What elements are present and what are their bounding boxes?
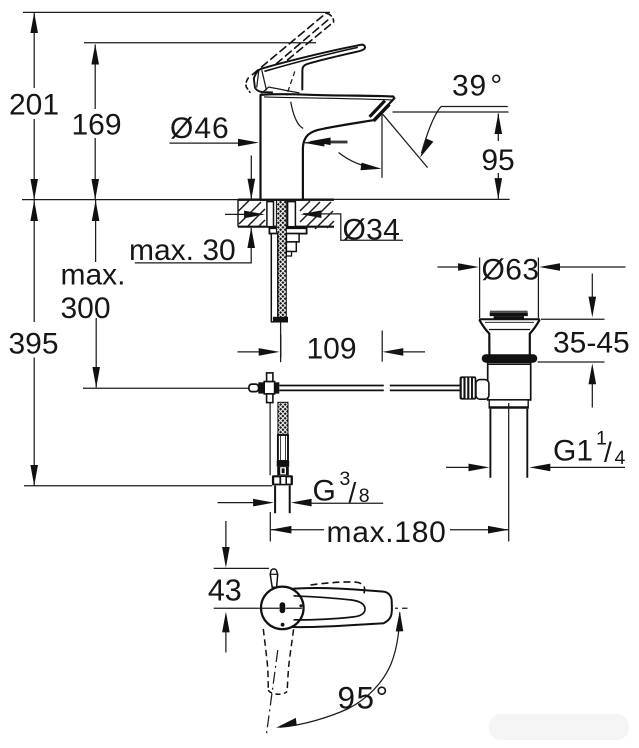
push cap (490, 312, 528, 316)
shank tube right (288, 202, 296, 227)
svg-text:39 °: 39 ° (452, 70, 503, 103)
dashed rotated lever downwards left edge (263, 629, 268, 690)
spout straight arrow (314, 140, 348, 142)
max.180 dimension (271, 529, 324, 531)
counter hatch left (239, 201, 266, 227)
knob pin (270, 569, 278, 587)
aerator slab 1 (370, 101, 385, 117)
flange top line (479, 318, 540, 320)
flange waist line (489, 329, 530, 331)
blade inner line (264, 47, 357, 71)
svg-text:max.: max. (61, 259, 126, 292)
svg-text:Ø63: Ø63 (482, 254, 540, 287)
G3/8 nut (272, 475, 293, 485)
rod guide tube (271, 234, 278, 322)
ref line lever rest level (84, 42, 316, 44)
dot right (299, 604, 302, 607)
aerator plane diagonal (383, 114, 428, 167)
arrowhead 201 bottom (30, 179, 38, 200)
svg-text:201: 201 (9, 89, 59, 122)
dashed lever tip cap (326, 13, 334, 22)
tee drop line (269, 403, 271, 475)
svg-text:35-45: 35-45 (553, 327, 630, 360)
spout top inner line (264, 97, 392, 100)
drain body (488, 363, 531, 400)
rod left stub (249, 384, 259, 392)
tee body (258, 382, 264, 393)
dimension line 169/max300 at x=95 (94, 45, 96, 110)
svg-text:95: 95 (481, 144, 514, 177)
threaded shank braid (276, 200, 286, 322)
hose end cap (273, 317, 288, 323)
counter left edge (237, 200, 239, 227)
cap dome (261, 87, 299, 93)
hose-end reference line (395 bottom) (24, 485, 272, 487)
svg-text:395: 395 (8, 328, 58, 361)
dashed raised lever inner edge (258, 18, 330, 79)
lever white fill (254, 45, 365, 94)
39 arc leader (422, 107, 442, 154)
counter reference line left (22, 199, 238, 201)
dashed raised lever bottom edge (260, 22, 334, 83)
dashed rotated lever top view (311, 582, 365, 594)
43 dimension (214, 567, 269, 569)
nut step 1 (286, 234, 299, 242)
counter hatch right (300, 201, 334, 230)
arrowhead 395 bottom (30, 465, 38, 486)
handle hub circle (261, 587, 304, 630)
hidden cartridge dashed curve (287, 72, 295, 96)
svg-text:43: 43 (208, 574, 242, 608)
G1 1/4 dimension arrows (446, 466, 485, 468)
knurled knob (460, 376, 477, 399)
solid lever top view (285, 588, 392, 627)
handle centerline inner (259, 607, 279, 609)
nut step 3 (286, 252, 291, 257)
svg-text:max. 30: max. 30 (129, 234, 236, 267)
arrowhead Ø46 right (304, 139, 325, 147)
dimension line 201/395 at x=34 (33, 13, 35, 88)
nut step 2 (286, 242, 296, 252)
arrowhead max300 bottom (92, 367, 100, 388)
tee pin down (267, 394, 273, 403)
horizontal rod segment 1 (279, 385, 384, 387)
spout curved arrow (339, 153, 377, 169)
Ø63 dimension (438, 266, 475, 268)
max30 upper pointer line (250, 156, 252, 200)
arrowhead 395 top (30, 200, 38, 221)
Ø34 arrows at shank (225, 213, 246, 215)
side housing (476, 380, 489, 400)
lower hose tube (278, 435, 288, 461)
dashed lever bottom cap (268, 690, 287, 694)
lever blade edges (261, 45, 365, 90)
arrowhead max30 up (247, 227, 255, 248)
95 dimension line (497, 114, 499, 142)
counter top line (238, 198, 334, 200)
counter reference line right thin (334, 198, 510, 200)
shank tube left (267, 202, 274, 227)
arrowhead Ø34 leader left (301, 210, 322, 218)
svg-text:4: 4 (615, 447, 626, 469)
dashed hub front (246, 78, 250, 92)
svg-text:95°: 95° (338, 680, 390, 716)
35-45 extension lines (541, 318, 605, 320)
svg-text:Ø46: Ø46 (170, 112, 230, 145)
hose centerline (280, 323, 282, 363)
horizontal rod segment 2 (390, 385, 461, 387)
svg-text:169: 169 (71, 109, 121, 142)
svg-text:max.180: max.180 (327, 516, 447, 549)
dashed raised lever top edge (252, 13, 326, 74)
svg-text:300: 300 (61, 292, 111, 325)
arrowhead max300 top (92, 200, 100, 221)
arrowhead Ø46 left (238, 139, 259, 147)
arrowhead 169 bottom (91, 179, 99, 200)
spout inner curve (291, 102, 304, 129)
hub outline (254, 69, 273, 93)
max.30 leader (135, 228, 251, 263)
svg-text:G1: G1 (553, 435, 593, 468)
arrowhead 201 top (30, 12, 38, 33)
aerator slab 2 (374, 104, 390, 121)
o-ring (482, 354, 538, 363)
drain centerline (508, 403, 510, 542)
Ø46 right leader (305, 142, 348, 144)
svg-text:Ø34: Ø34 (343, 214, 401, 247)
flange body (479, 319, 540, 355)
counter bottom line (238, 226, 334, 228)
faucet body outline (261, 94, 395, 200)
watermark (489, 714, 629, 740)
handle centerline dash-dot (302, 607, 408, 609)
tail pipe (489, 409, 491, 478)
dot bottom (281, 623, 285, 627)
G 3/8 dimension arrows (218, 502, 270, 504)
bottom ring (489, 400, 528, 408)
hub facet lines (257, 70, 259, 87)
Ø63 extension lines (479, 258, 481, 319)
aerator vertical extension (381, 113, 383, 178)
rod reference line left (83, 387, 250, 389)
mounting washer (269, 228, 306, 233)
35-45 dimension arrows (591, 274, 593, 314)
G3/8 tube (274, 486, 276, 514)
crimp fitting (277, 467, 289, 476)
109 dimension (238, 351, 276, 353)
lower braided hose (278, 402, 288, 435)
svg-text:G: G (313, 475, 336, 508)
dashed rotated lever downwards right edge (287, 629, 293, 691)
95 top reference line (393, 111, 509, 113)
rotated lever axis line (266, 650, 278, 736)
arrowhead 169 top (91, 44, 99, 65)
center black oblong (280, 602, 286, 613)
inner grip outline (294, 596, 366, 620)
svg-text:109: 109 (306, 333, 356, 366)
crimp band (277, 461, 290, 467)
svg-text:/: / (604, 437, 612, 468)
ref line top (lever raised level) (23, 11, 330, 13)
push cap top line (490, 310, 528, 312)
95 degree arc (280, 613, 400, 728)
arrowhead max30 down (248, 179, 256, 200)
tee pin up (267, 373, 273, 382)
